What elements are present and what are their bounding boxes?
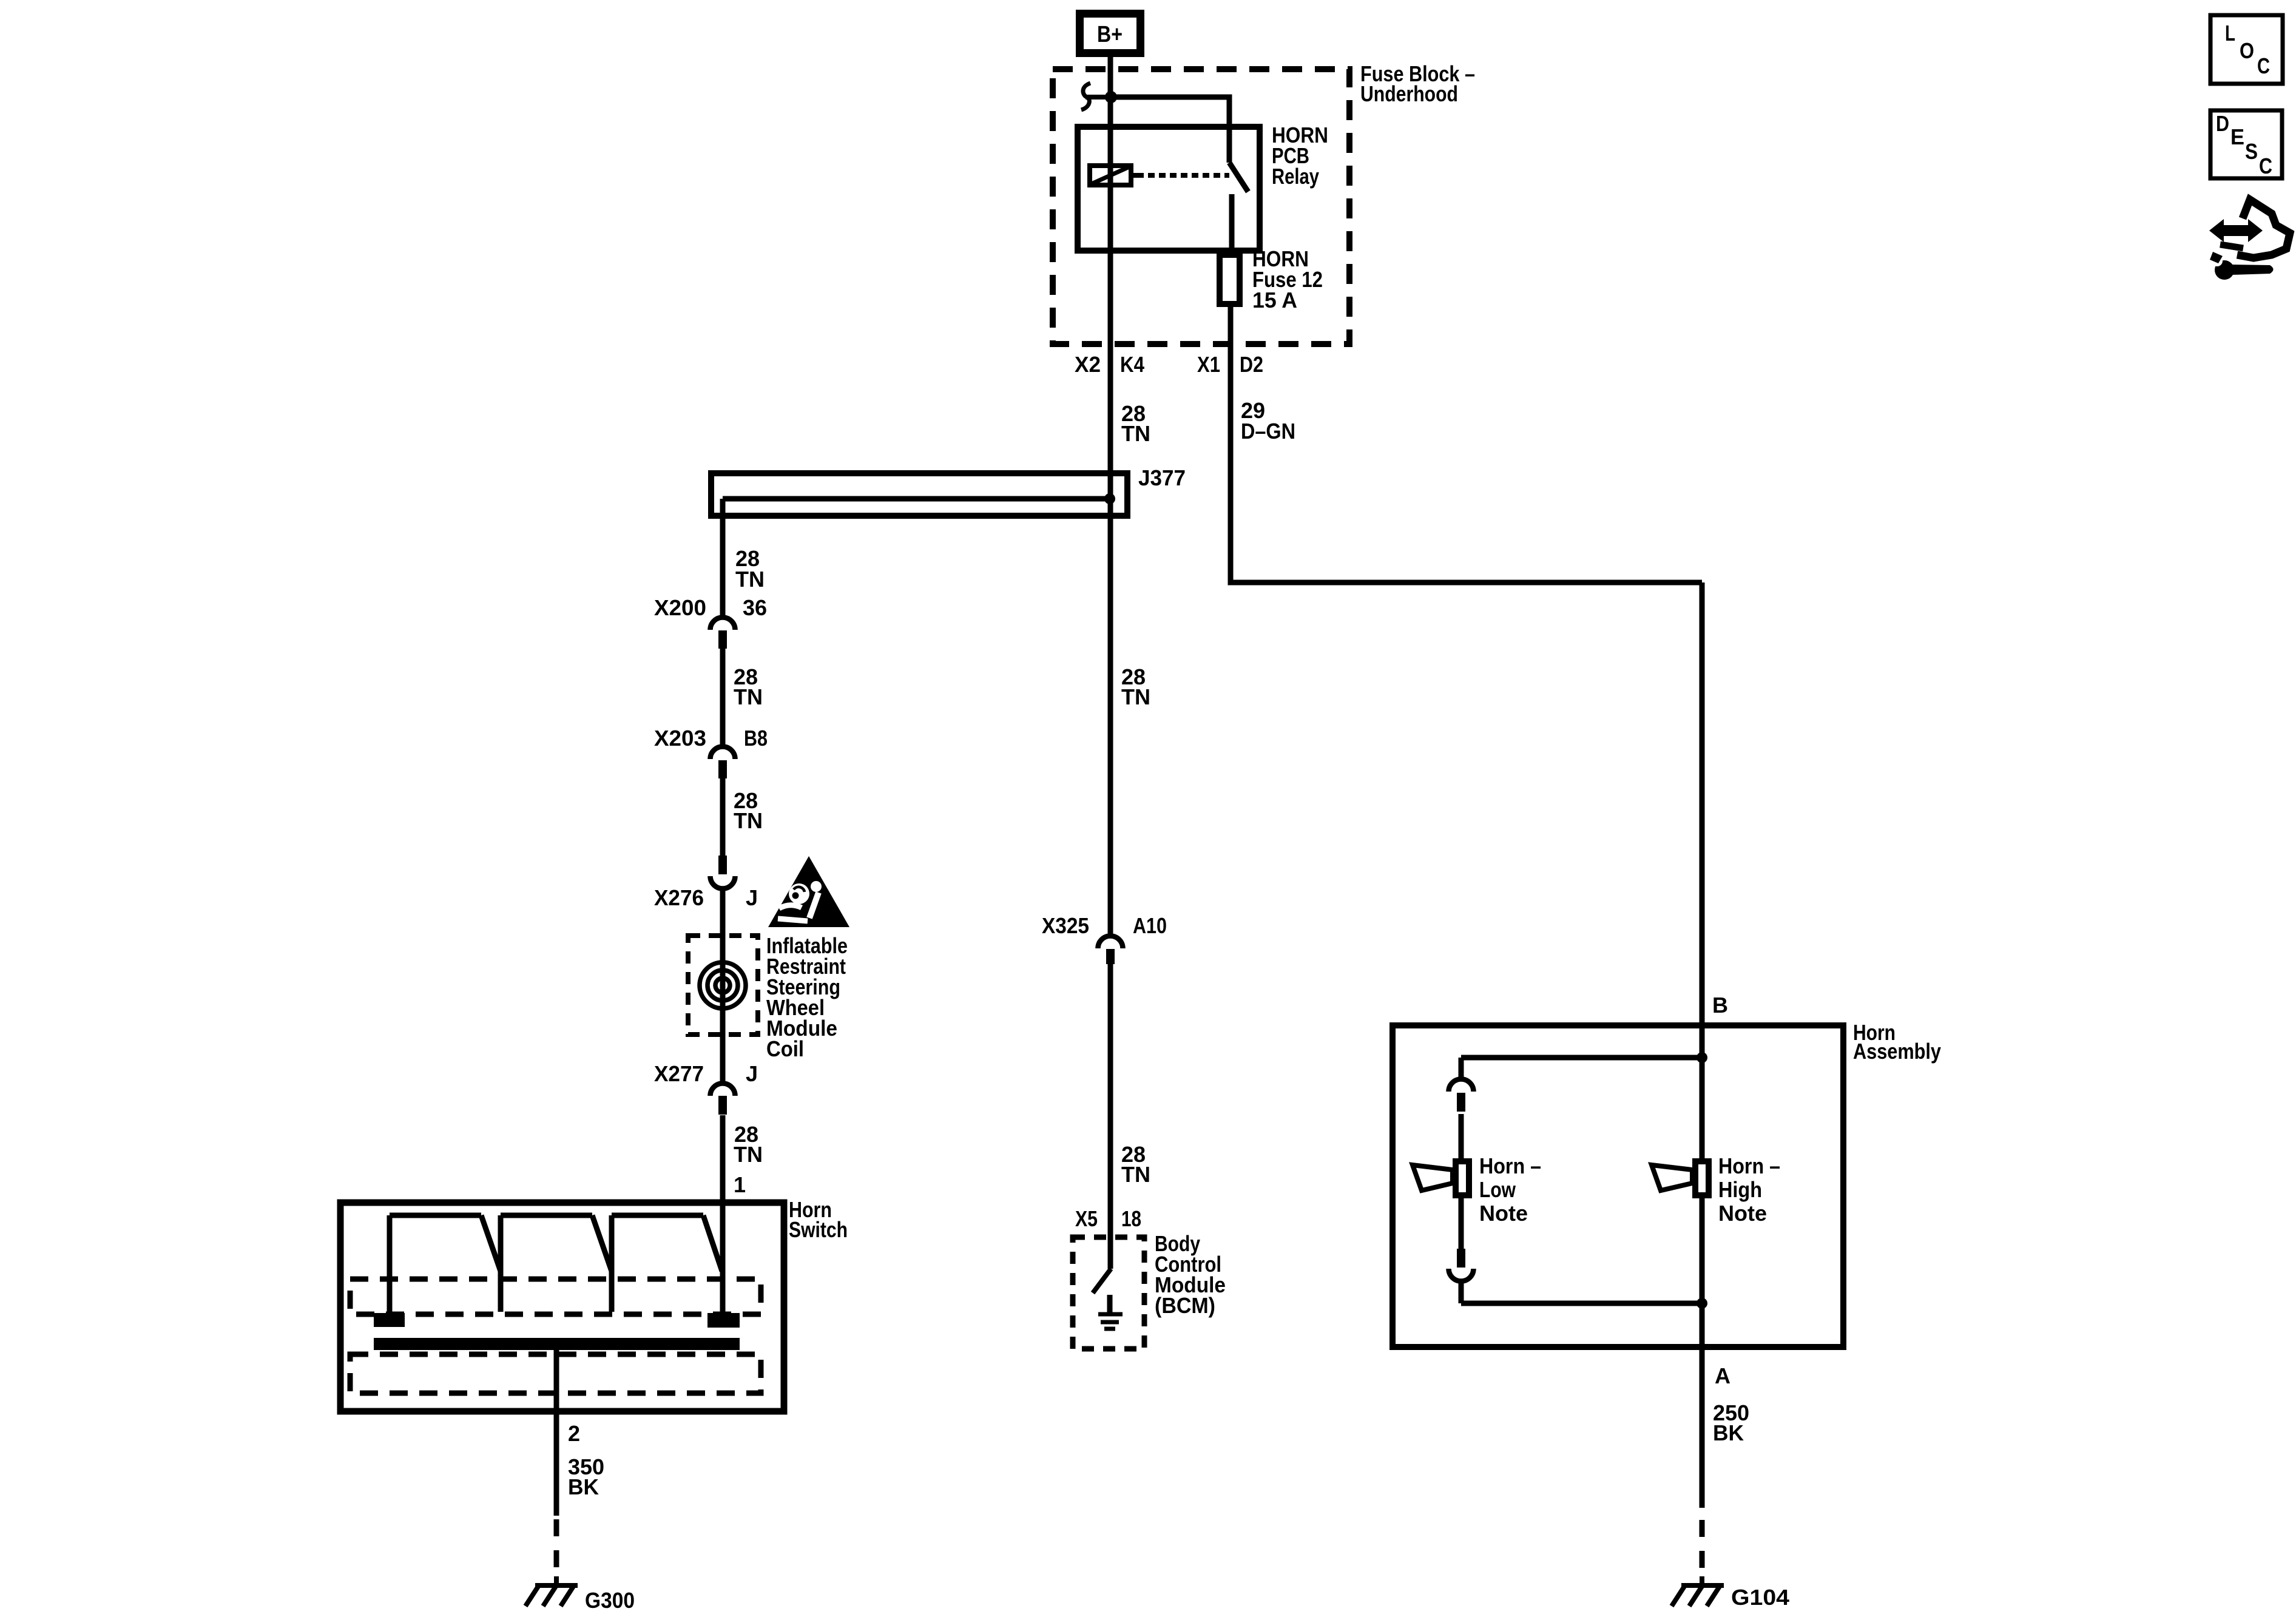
membrane dashed box upper bbox=[350, 1279, 761, 1314]
horn low note symbol bbox=[1413, 1165, 1453, 1190]
svg-text:High: High bbox=[1718, 1177, 1762, 1202]
wire dashed to G104 bbox=[1700, 1520, 1705, 1576]
wire horn assembly inner top bbox=[1461, 1055, 1702, 1061]
svg-text:Note: Note bbox=[1718, 1201, 1767, 1226]
relay box (HORN PCB Relay) bbox=[1078, 127, 1260, 251]
connector X276 pin J bbox=[718, 856, 727, 874]
svg-text:D–GN: D–GN bbox=[1241, 419, 1295, 444]
connector X200 pin 36 bbox=[710, 617, 735, 630]
coil spiral bbox=[700, 962, 746, 1008]
relay coil K4 bbox=[1090, 166, 1131, 185]
svg-text:X200: X200 bbox=[654, 595, 706, 620]
ground G300 bbox=[525, 1576, 578, 1606]
svg-text:TN: TN bbox=[734, 1142, 763, 1167]
wire X277 to horn switch pin 1 bbox=[720, 1115, 726, 1313]
svg-text:TN: TN bbox=[735, 567, 765, 592]
svg-text:BK: BK bbox=[1713, 1420, 1744, 1445]
svg-text:O: O bbox=[2240, 38, 2254, 63]
ground G104 bbox=[1672, 1576, 1724, 1606]
svg-text:18: 18 bbox=[1121, 1206, 1141, 1231]
svg-text:X277: X277 bbox=[654, 1061, 704, 1086]
BCM dashed box bbox=[1073, 1237, 1144, 1349]
svg-text:Relay: Relay bbox=[1272, 164, 1319, 189]
membrane bar bbox=[374, 1338, 740, 1350]
horn high note symbol bbox=[1652, 1165, 1692, 1190]
svg-text:A: A bbox=[1715, 1363, 1730, 1388]
node J377 junction bbox=[1104, 493, 1115, 504]
SRS warning triangle bbox=[768, 856, 849, 927]
wire relay switch upper stub bbox=[1227, 129, 1232, 163]
DESC box bbox=[2210, 110, 2282, 178]
svg-text:X203: X203 bbox=[654, 726, 706, 751]
wire down right leg through horn assembly bbox=[1700, 582, 1705, 1508]
svg-text:D2: D2 bbox=[1240, 352, 1263, 377]
switch contact 2 bbox=[501, 1215, 612, 1312]
svg-text:Switch: Switch bbox=[789, 1217, 848, 1242]
svg-text:J: J bbox=[746, 1061, 758, 1086]
crimp symbol bbox=[1081, 83, 1090, 110]
svg-text:A10: A10 bbox=[1133, 913, 1167, 938]
wire horn low branch bbox=[1459, 1058, 1464, 1303]
svg-text:C: C bbox=[2257, 53, 2270, 78]
wire X200 to X203 bbox=[720, 649, 726, 744]
wire dashed to G300 bbox=[554, 1519, 559, 1576]
svg-text:(BCM): (BCM) bbox=[1155, 1293, 1215, 1318]
svg-text:Coil: Coil bbox=[766, 1036, 804, 1061]
svg-text:Underhood: Underhood bbox=[1360, 81, 1458, 106]
svg-text:X325: X325 bbox=[1042, 913, 1089, 938]
svg-text:TN: TN bbox=[1121, 684, 1150, 709]
membrane dashed box lower bbox=[350, 1354, 761, 1393]
BCM internal switch bbox=[1093, 1269, 1111, 1293]
contact pad left bbox=[374, 1313, 405, 1327]
inflatable restraint coil dashed box bbox=[688, 936, 758, 1035]
wire X325 to BCM bbox=[1108, 964, 1113, 1269]
svg-text:X2: X2 bbox=[1075, 352, 1101, 377]
wire horn assembly inner bottom bbox=[1461, 1301, 1702, 1306]
svg-text:Low: Low bbox=[1479, 1177, 1516, 1202]
wire relay switch lower stub to fuse bbox=[1229, 194, 1235, 255]
relay coil-contact dashed link bbox=[1137, 173, 1229, 178]
LOC box bbox=[2210, 15, 2283, 84]
wire X203 to X276 bbox=[720, 778, 726, 856]
wire X276 through coil to X277 bbox=[720, 891, 726, 1081]
svg-text:Horn –: Horn – bbox=[1718, 1153, 1780, 1178]
svg-text:G300: G300 bbox=[585, 1588, 635, 1613]
horn switch box bbox=[340, 1203, 784, 1411]
svg-text:B: B bbox=[1712, 993, 1728, 1018]
wire fuse to corner to horn assembly (net 29 D-GN) bbox=[1231, 307, 1702, 582]
connector horn low top bbox=[1449, 1079, 1474, 1092]
wire B+ to relay coil to J377 to X325 (net 28 TN, K4 leg) bbox=[1108, 57, 1113, 934]
svg-text:K4: K4 bbox=[1120, 352, 1144, 377]
connector X277 pin J bbox=[710, 1083, 735, 1096]
node junction B bbox=[1697, 1052, 1707, 1063]
svg-text:X5: X5 bbox=[1075, 1206, 1098, 1231]
connector X325 pin A10 bbox=[1098, 936, 1123, 948]
wire horn switch to G300 bbox=[554, 1344, 559, 1516]
wire J377 left leg to X200 bbox=[720, 499, 726, 615]
svg-text:Horn –: Horn – bbox=[1479, 1153, 1541, 1178]
switch contact 1 bbox=[390, 1215, 501, 1314]
svg-text:B+: B+ bbox=[1097, 22, 1123, 47]
node junction A bbox=[1697, 1298, 1707, 1309]
B+ box bbox=[1080, 14, 1141, 53]
node junction B+ bbox=[1105, 91, 1117, 103]
svg-text:X276: X276 bbox=[654, 885, 704, 910]
svg-text:E: E bbox=[2230, 124, 2244, 149]
BCM internal ground bbox=[1098, 1295, 1123, 1329]
svg-text:Note: Note bbox=[1479, 1201, 1528, 1226]
svg-text:TN: TN bbox=[734, 808, 763, 833]
wire junction to relay switch top bbox=[1111, 97, 1229, 129]
contact pad right bbox=[707, 1313, 740, 1328]
svg-text:B8: B8 bbox=[744, 726, 768, 751]
svg-text:1: 1 bbox=[734, 1172, 746, 1197]
svg-text:J: J bbox=[746, 885, 758, 910]
svg-text:TN: TN bbox=[1121, 1162, 1150, 1187]
svg-text:BK: BK bbox=[568, 1474, 599, 1499]
wrench icon bbox=[2210, 252, 2274, 280]
svg-text:L: L bbox=[2225, 21, 2235, 46]
relay switch blade bbox=[1229, 163, 1248, 192]
svg-text:36: 36 bbox=[743, 595, 767, 620]
adjust hand icon bbox=[2209, 200, 2290, 258]
svg-text:TN: TN bbox=[734, 684, 763, 709]
svg-text:C: C bbox=[2259, 154, 2272, 178]
J377 bus bar box bbox=[711, 473, 1127, 516]
connector X203 pin B8 bbox=[710, 747, 735, 760]
svg-text:D: D bbox=[2216, 111, 2229, 136]
svg-text:X1: X1 bbox=[1197, 352, 1220, 377]
svg-text:15 A: 15 A bbox=[1252, 288, 1297, 312]
horn assembly box bbox=[1393, 1025, 1843, 1347]
svg-text:2: 2 bbox=[568, 1421, 580, 1446]
fuse HORN Fuse 12 15A bbox=[1220, 255, 1240, 304]
connector horn low bottom bbox=[1457, 1249, 1465, 1268]
svg-text:J377: J377 bbox=[1138, 465, 1186, 490]
switch contact 3 bbox=[612, 1215, 722, 1312]
svg-text:TN: TN bbox=[1121, 421, 1150, 446]
svg-text:G104: G104 bbox=[1731, 1585, 1789, 1610]
svg-text:Assembly: Assembly bbox=[1853, 1039, 1941, 1064]
fuse block dashed box bbox=[1053, 69, 1349, 344]
svg-text:S: S bbox=[2245, 139, 2258, 164]
